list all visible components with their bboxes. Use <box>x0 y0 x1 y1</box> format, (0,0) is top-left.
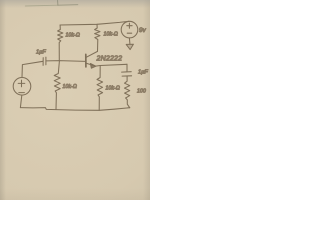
resistor R1 10k-ohm (upper bias) <box>58 25 80 60</box>
wire V1 top to C1 <box>22 61 43 77</box>
svg-text:10k-Ω: 10k-Ω <box>104 32 119 38</box>
transistor Q1 2N2222 <box>86 51 122 68</box>
wire bottom return rail <box>20 108 129 111</box>
svg-text:10k-Ω: 10k-Ω <box>63 84 78 90</box>
wire emitter node to output branch <box>100 64 127 65</box>
faint page-edge mark <box>58 1 78 6</box>
resistor R2 10k-ohm (collector) <box>95 24 118 51</box>
resistor R3 10k-ohm (lower bias) <box>54 61 77 110</box>
svg-text:2N2222: 2N2222 <box>96 56 123 63</box>
resistor R4 10k-ohm (emitter) <box>97 66 120 111</box>
source V1 (input) <box>13 78 31 96</box>
wire C1 to base node to transistor base <box>46 60 85 63</box>
ground (arrow below V2) <box>126 44 133 49</box>
svg-text:100: 100 <box>137 89 146 95</box>
svg-text:1µF: 1µF <box>138 70 148 76</box>
faint ruled line at top of page <box>25 4 58 7</box>
wire V2 bottom lead <box>128 38 131 44</box>
svg-text:9v: 9v <box>139 27 147 34</box>
wire top supply rail <box>60 21 129 25</box>
capacitor C2 1uF (output branch) <box>122 64 149 76</box>
source V2 9v supply <box>121 21 146 38</box>
svg-text:10k-Ω: 10k-Ω <box>106 86 121 92</box>
resistor R5 100 (output branch) <box>125 76 146 107</box>
capacitor C1 1uF <box>36 50 46 66</box>
wire V1 bottom lead <box>20 95 21 107</box>
svg-text:10k-Ω: 10k-Ω <box>66 33 81 39</box>
svg-text:1µF: 1µF <box>36 50 46 56</box>
